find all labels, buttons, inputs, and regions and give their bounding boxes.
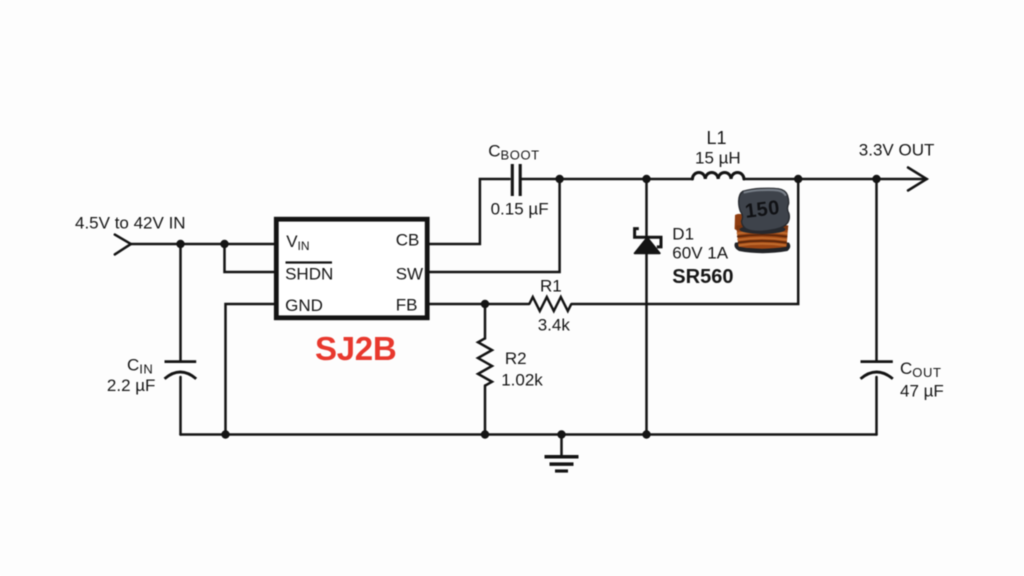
IC U1 box: [276, 219, 427, 318]
wire GND pin to bottom rail: [226, 304, 277, 435]
input arrow: [115, 235, 131, 255]
wire R2 bottom lead: [484, 386, 487, 435]
wire input to VIN pin: [131, 243, 276, 246]
inductor L1 coil: [692, 173, 744, 179]
svg-text:GND: GND: [285, 296, 323, 315]
wire bottom rail: [181, 433, 877, 436]
wire SHDN branch: [225, 244, 277, 272]
wire FB pin to R1: [428, 303, 530, 306]
junction boot node: [555, 175, 563, 183]
capacitor CBOOT: [512, 164, 520, 196]
svg-text:0.15 µF: 0.15 µF: [491, 199, 549, 218]
svg-text:FB: FB: [396, 295, 418, 314]
junction ground node at D1: [642, 430, 650, 438]
photo copper side winding: [735, 214, 743, 231]
wire COUT top lead: [875, 179, 878, 361]
svg-text:2.2 µF: 2.2 µF: [107, 376, 156, 395]
photo base flange: [734, 241, 790, 253]
capacitor CIN: [165, 362, 197, 379]
output arrow: [908, 168, 927, 191]
svg-text:CB: CB: [396, 230, 420, 249]
pin SHDN overline: [286, 261, 333, 263]
junction ground node at R2: [481, 430, 489, 438]
wire CBOOT right plate to rail: [522, 178, 693, 181]
photo winding gap lines: [737, 235, 787, 243]
svg-text:4.5V to 42V IN: 4.5V to 42V IN: [75, 213, 186, 232]
junction output node at R1: [794, 175, 802, 183]
wire CIN top lead: [179, 244, 182, 361]
wire D1 branch top: [645, 179, 648, 237]
photo winding highlight arcs: [737, 232, 788, 246]
svg-text:D1: D1: [672, 225, 694, 244]
svg-text:SR560: SR560: [672, 266, 733, 288]
svg-text:60V 1A: 60V 1A: [672, 244, 728, 263]
wire CB pin to CBOOT: [428, 179, 510, 244]
svg-text:SJ2B: SJ2B: [315, 330, 396, 367]
photo top plate: [738, 187, 790, 232]
junction input node at SHDN: [220, 240, 228, 248]
svg-text:150: 150: [744, 197, 781, 223]
inductor photo L1: [734, 187, 790, 253]
svg-text:R2: R2: [505, 349, 527, 368]
svg-text:R1: R1: [540, 277, 562, 296]
junction ground node at GND pin: [221, 430, 229, 438]
resistor R1: [529, 297, 571, 311]
capacitor COUT: [861, 362, 893, 379]
ground stem: [560, 435, 563, 456]
wire D1 branch bottom: [645, 253, 648, 435]
wire SW pin up to boot node: [428, 179, 560, 272]
svg-text:SW: SW: [396, 264, 423, 283]
wire CIN bottom lead: [179, 377, 182, 435]
photo under-plate shadow: [740, 225, 786, 234]
wire R2 top lead: [484, 304, 487, 339]
svg-text:SHDN: SHDN: [285, 264, 333, 283]
ground: [545, 457, 579, 471]
junction switch node at D1: [642, 175, 650, 183]
photo copper winding block: [736, 224, 788, 249]
svg-text:L1: L1: [707, 128, 727, 148]
junction ground node at ground symbol: [557, 430, 565, 438]
junction output node at COUT: [872, 175, 880, 183]
svg-text:3.4k: 3.4k: [538, 316, 571, 335]
junction feedback node FB: [481, 300, 489, 308]
wire COUT bottom lead: [875, 377, 878, 435]
svg-text:3.3V OUT: 3.3V OUT: [859, 140, 935, 159]
photo winding shadowed top edge: [736, 224, 788, 231]
svg-text:47 µF: 47 µF: [900, 382, 944, 401]
wire rail L1 to output: [744, 178, 927, 181]
resistor R2: [478, 338, 492, 385]
junction input node at CIN: [176, 240, 184, 248]
wire R1 right to rail: [572, 179, 799, 304]
svg-text:15 µH: 15 µH: [695, 149, 741, 168]
svg-text:1.02k: 1.02k: [501, 370, 543, 389]
diode D1: [635, 229, 661, 254]
